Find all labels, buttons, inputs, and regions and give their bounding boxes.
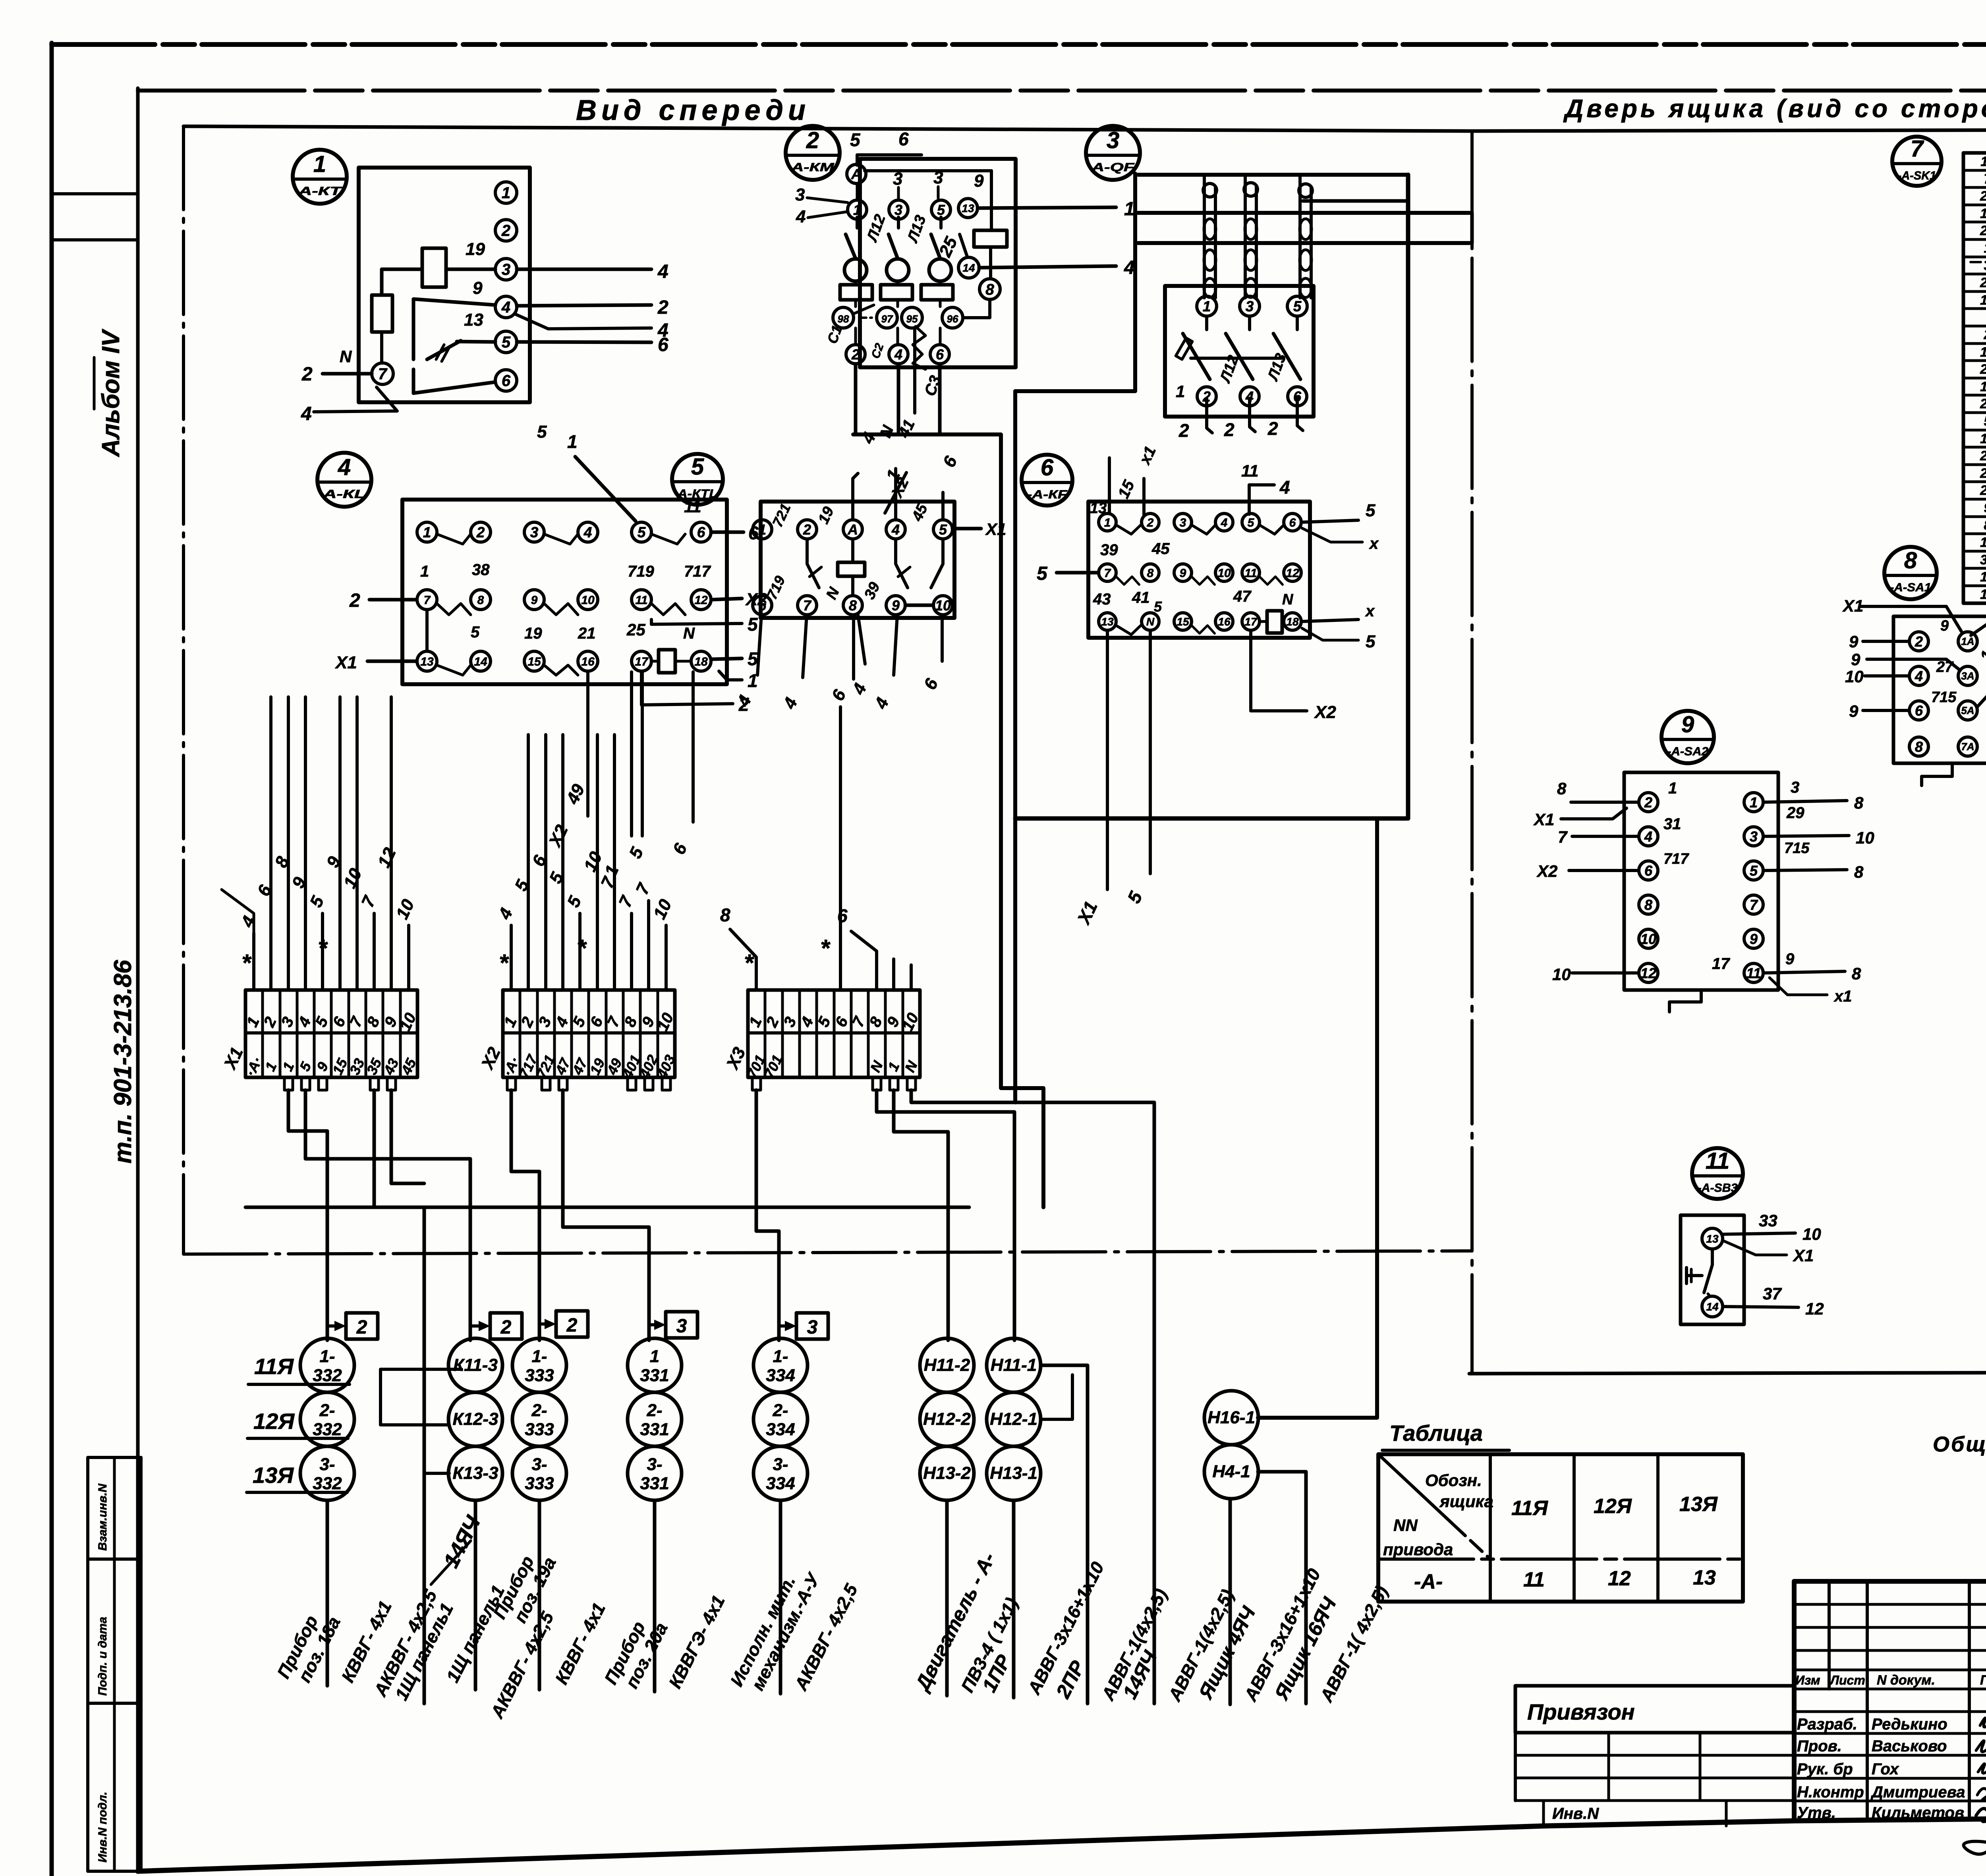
designator circle 6 A-KF xyxy=(1022,455,1072,506)
svg-text:13: 13 xyxy=(962,202,974,214)
svg-text:1: 1 xyxy=(1203,298,1211,315)
svg-text:332: 332 xyxy=(313,1420,342,1439)
A-KM contact 98-97 bridge xyxy=(854,305,874,314)
X3 wire 9 10 xyxy=(892,959,895,990)
X2 wire 1 xyxy=(510,925,513,990)
A-KM pin 96 and resistor to 8 xyxy=(942,307,963,328)
A-KL row3 contacts xyxy=(437,665,471,675)
terminal strip X1 xyxy=(245,990,417,1077)
A-KF pins row1 xyxy=(1099,513,1116,531)
svg-text:Н.контр: Н.контр xyxy=(1797,1783,1864,1801)
tablitsa diagonal xyxy=(1378,1454,1490,1559)
A-KM fuse branch C2 xyxy=(897,217,900,228)
X1 wire 1 bend xyxy=(222,890,254,933)
svg-text:Подп. и дата: Подп. и дата xyxy=(96,1617,109,1696)
cable H13-2 labels xyxy=(945,1500,949,1696)
svg-text:11Я: 11Я xyxy=(254,1354,294,1379)
X1 wire 7 xyxy=(355,697,359,990)
svg-text:4: 4 xyxy=(301,403,312,425)
svg-text:333: 333 xyxy=(525,1420,554,1439)
A-KM fuse branch C3 xyxy=(939,217,943,228)
svg-text:4: 4 xyxy=(891,521,900,538)
svg-text:334: 334 xyxy=(766,1366,795,1385)
wire X2c4 to col331 xyxy=(563,1090,649,1340)
svg-text:2: 2 xyxy=(806,127,819,153)
A-KM pins 1 3 5 13 xyxy=(848,200,867,219)
X1 wire 10 xyxy=(407,925,410,990)
A-SA2 left leads xyxy=(1571,801,1639,804)
boxed ref 3 col331 xyxy=(666,1312,697,1338)
svg-text:Н16-1: Н16-1 xyxy=(1207,1408,1255,1427)
A-KL diagonal lead to pin5 xyxy=(575,457,636,521)
svg-text:11: 11 xyxy=(1523,1568,1545,1591)
A-SA2 pins col1 xyxy=(1639,793,1658,812)
A-KM pin A xyxy=(847,164,866,183)
svg-text:9: 9 xyxy=(1849,702,1858,720)
svg-text:Гох: Гох xyxy=(1872,1760,1899,1778)
A-KF pins row3 xyxy=(1099,613,1116,630)
A-KT wire coil to pin7 xyxy=(380,332,383,363)
svg-text:10: 10 xyxy=(581,594,595,607)
svg-text:2-: 2- xyxy=(531,1401,547,1420)
svg-text:Обозн.: Обозн. xyxy=(1425,1471,1482,1490)
svg-text:8: 8 xyxy=(1147,567,1154,580)
svg-text:2: 2 xyxy=(1267,418,1278,439)
A-KF lead from 6 right xyxy=(1301,520,1358,522)
svg-text:4: 4 xyxy=(894,346,902,363)
svg-text:Н11-1: Н11-1 xyxy=(991,1355,1037,1375)
svg-text:14: 14 xyxy=(1706,1301,1719,1313)
svg-text:29: 29 xyxy=(1980,448,1986,463)
svg-text:-А-КF: -А-КF xyxy=(1027,488,1068,501)
svg-text:X1: X1 xyxy=(1842,596,1863,615)
svg-text:96: 96 xyxy=(947,313,958,325)
relay A-KL box xyxy=(402,500,727,684)
svg-text:1: 1 xyxy=(1750,794,1758,811)
svg-text:N докум.: N докум. xyxy=(1877,1673,1935,1688)
svg-text:13: 13 xyxy=(1101,616,1114,628)
designator circle 9 -A-SA2 xyxy=(1661,711,1714,763)
A-SA2 bottom hook xyxy=(1669,990,1701,1012)
svg-text:1: 1 xyxy=(1176,382,1185,401)
svg-text:17: 17 xyxy=(1980,206,1986,221)
A-KTL bridge 9-10 xyxy=(907,604,933,607)
svg-text:8: 8 xyxy=(1644,897,1652,913)
svg-text:9: 9 xyxy=(1940,618,1949,634)
cable H13-1 labels xyxy=(1012,1500,1016,1698)
svg-text:9: 9 xyxy=(531,594,538,607)
cable col334 labels xyxy=(779,1500,782,1694)
svg-text:21: 21 xyxy=(1980,362,1986,377)
svg-text:2: 2 xyxy=(657,297,668,318)
svg-text:*: * xyxy=(499,950,509,976)
svg-text:1: 1 xyxy=(423,524,431,540)
A-KL lead 5 row2 xyxy=(651,620,742,624)
A-KTL top stubs xyxy=(853,473,858,520)
svg-text:Дверь ящика (вид со сторо: Дверь ящика (вид со стороны монтажа) xyxy=(1563,94,1986,123)
svg-text:Васьково: Васьково xyxy=(1872,1737,1947,1755)
svg-text:4: 4 xyxy=(338,454,351,480)
inner frame top dashed xyxy=(138,89,1986,93)
front view box xyxy=(184,126,1472,131)
A-KF coil xyxy=(1267,611,1282,633)
contactor A-KM box xyxy=(860,159,1016,367)
wire QF circle down xyxy=(1015,174,1135,391)
svg-text:331: 331 xyxy=(640,1474,669,1493)
svg-text:3: 3 xyxy=(893,169,902,189)
cable K13 labels xyxy=(474,1500,477,1690)
designator circle 8 -A-SA1 xyxy=(1884,547,1937,599)
svg-text:6: 6 xyxy=(502,372,511,390)
stamp box podp data xyxy=(88,1559,141,1703)
svg-text:Таблица: Таблица xyxy=(1389,1421,1483,1446)
A-KTL coil xyxy=(838,562,865,576)
A-KM zigzag under 95 xyxy=(913,326,925,369)
terminal strip X3 xyxy=(748,990,920,1077)
svg-text:2-: 2- xyxy=(319,1401,335,1420)
inv n bottom row xyxy=(1542,1801,1545,1826)
svg-text:Пров.: Пров. xyxy=(1797,1737,1842,1755)
svg-text:X1: X1 xyxy=(1793,1246,1814,1265)
svg-text:47: 47 xyxy=(1233,588,1252,605)
A-KT contact to pin6 xyxy=(412,369,415,393)
svg-text:17: 17 xyxy=(1712,955,1730,973)
svg-text:41: 41 xyxy=(1132,589,1150,606)
svg-text:13Я: 13Я xyxy=(1679,1493,1718,1516)
A-KL lead 2 to pin7 xyxy=(369,598,417,602)
terminal strip SK1 xyxy=(1963,153,1986,603)
svg-text:X1: X1 xyxy=(985,520,1006,538)
svg-text:4: 4 xyxy=(1124,257,1135,278)
svg-text:8: 8 xyxy=(1984,518,1986,533)
svg-text:5: 5 xyxy=(1154,598,1162,615)
svg-text:2: 2 xyxy=(1984,327,1986,342)
svg-text:N: N xyxy=(683,625,695,642)
svg-text:17: 17 xyxy=(1244,616,1258,628)
svg-text:12: 12 xyxy=(1286,567,1299,580)
QF box xyxy=(1165,286,1314,417)
svg-text:*: * xyxy=(577,935,587,961)
boxed ref 2 col333 xyxy=(556,1311,588,1337)
svg-text:30: 30 xyxy=(1980,552,1986,567)
svg-text:38: 38 xyxy=(472,561,490,579)
svg-text:5: 5 xyxy=(1248,516,1255,529)
svg-text:11: 11 xyxy=(1244,567,1257,580)
svg-text:717: 717 xyxy=(1663,851,1689,867)
svg-text:15: 15 xyxy=(527,655,541,668)
signoff grid columns xyxy=(1828,1581,1831,1689)
column K11-3 circles xyxy=(448,1338,502,1392)
svg-text:6: 6 xyxy=(758,597,767,614)
designator circle 7 -A-SK1 xyxy=(1892,137,1942,186)
svg-text:12: 12 xyxy=(1640,965,1656,981)
svg-text:9: 9 xyxy=(1681,712,1694,737)
svg-text:N: N xyxy=(1146,616,1155,628)
svg-text:4: 4 xyxy=(583,524,592,540)
svg-text:Дмитриева: Дмитриева xyxy=(1870,1783,1965,1801)
svg-text:13: 13 xyxy=(1090,500,1107,517)
svg-text:2: 2 xyxy=(1915,633,1923,650)
svg-text:3-: 3- xyxy=(531,1455,547,1474)
X2 wire 5 xyxy=(578,913,582,990)
A-KTL pins row1 xyxy=(753,520,772,539)
A-SA1 pins xyxy=(1909,632,1928,651)
svg-text:13: 13 xyxy=(1980,379,1986,394)
designator circle 2 A-KM xyxy=(786,126,840,180)
svg-text:5: 5 xyxy=(1984,414,1986,429)
svg-text:Рук. бр: Рук. бр xyxy=(1797,1760,1853,1778)
svg-text:2: 2 xyxy=(301,364,313,385)
svg-text:22: 22 xyxy=(1980,396,1986,411)
svg-text:-А-: -А- xyxy=(1414,1570,1443,1593)
svg-text:1-: 1- xyxy=(531,1347,547,1366)
A-KT resistor R1 xyxy=(422,248,446,287)
svg-text:К12-3: К12-3 xyxy=(452,1409,498,1429)
svg-text:7А: 7А xyxy=(1961,741,1974,753)
svg-text:7: 7 xyxy=(424,594,431,607)
svg-text:97: 97 xyxy=(881,313,893,325)
A-KTL pins row2 xyxy=(753,596,772,615)
svg-text:8: 8 xyxy=(720,905,730,925)
svg-text:6: 6 xyxy=(898,129,909,149)
svg-text:3: 3 xyxy=(1984,258,1986,273)
svg-text:6: 6 xyxy=(658,334,668,355)
svg-text:5: 5 xyxy=(1750,863,1758,879)
svg-text:3А: 3А xyxy=(1961,670,1974,682)
svg-text:*: * xyxy=(241,950,252,976)
svg-text:331: 331 xyxy=(640,1420,669,1439)
svg-text:3: 3 xyxy=(1107,127,1119,153)
A-KT pins 1-6 xyxy=(495,182,517,203)
svg-text:1: 1 xyxy=(650,1347,659,1366)
svg-text:5: 5 xyxy=(1037,563,1048,584)
svg-text:9: 9 xyxy=(1984,500,1986,515)
svg-text:А-КМ: А-КМ xyxy=(791,161,835,174)
svg-text:19: 19 xyxy=(524,625,542,642)
svg-text:A: A xyxy=(851,166,862,182)
terminal strip X2 xyxy=(503,990,675,1077)
left margin tick 2 xyxy=(52,238,138,241)
A-KL coil xyxy=(659,650,675,673)
A-KM lead from 14 xyxy=(979,266,1116,268)
svg-text:13Я: 13Я xyxy=(253,1463,294,1488)
svg-text:5: 5 xyxy=(850,129,861,150)
svg-text:3: 3 xyxy=(807,1317,818,1338)
svg-text:А-КL: А-КL xyxy=(323,488,366,501)
svg-text:8: 8 xyxy=(1557,779,1567,798)
svg-text:2: 2 xyxy=(500,1317,512,1338)
svg-text:9: 9 xyxy=(974,171,984,191)
X2 wire 9 xyxy=(647,901,650,990)
svg-text:x: x xyxy=(1365,602,1375,620)
wire X1c8 to 1Shch cable xyxy=(373,1090,376,1207)
svg-text:1: 1 xyxy=(502,184,510,202)
QF switch blades xyxy=(1205,316,1208,330)
A-KT pin 7 xyxy=(372,363,393,384)
svg-text:9: 9 xyxy=(473,278,483,298)
svg-text:10: 10 xyxy=(935,597,951,614)
svg-text:10: 10 xyxy=(1802,1225,1821,1243)
svg-text:1-: 1- xyxy=(319,1347,335,1366)
svg-text:8: 8 xyxy=(849,597,857,614)
H4-1 circle xyxy=(1204,1445,1258,1499)
svg-text:333: 333 xyxy=(525,1366,554,1385)
svg-text:9: 9 xyxy=(1851,650,1860,669)
svg-text:20: 20 xyxy=(1980,483,1986,498)
svg-text:X2: X2 xyxy=(1536,862,1557,880)
A-SA2 right leads xyxy=(1763,801,1847,802)
svg-text:N: N xyxy=(1282,591,1294,608)
bus vertical mid xyxy=(1013,391,1017,1102)
svg-text:Подп.: Подп. xyxy=(1980,1673,1986,1688)
svg-text:x: x xyxy=(1369,535,1379,552)
QF bottom stubs 2 2 2 xyxy=(1207,398,1212,433)
svg-text:1: 1 xyxy=(1104,516,1111,529)
svg-text:-А-SВ3: -А-SВ3 xyxy=(1698,1181,1738,1195)
wire H4-1 to cable xyxy=(1258,1472,1306,1704)
svg-text:18: 18 xyxy=(1286,616,1299,628)
switch A-SA1 box xyxy=(1893,616,1986,763)
A-KF top leads xyxy=(1108,458,1111,513)
svg-text:Лист: Лист xyxy=(1830,1673,1865,1687)
stamp box vzam inv xyxy=(88,1457,141,1559)
A-KL pins row1 xyxy=(417,522,437,542)
boxed ref 2 col332 xyxy=(346,1313,378,1339)
svg-text:6: 6 xyxy=(1289,516,1296,529)
svg-text:Взам.инв.N: Взам.инв.N xyxy=(96,1483,109,1551)
X2 wire 6 xyxy=(596,735,599,990)
cable col331 labels xyxy=(653,1500,657,1692)
svg-text:3: 3 xyxy=(1750,828,1758,845)
svg-text:4: 4 xyxy=(657,261,668,282)
QF supply chain L1 xyxy=(1203,175,1206,298)
X1 wire 9 xyxy=(390,697,393,990)
signoff rows xyxy=(1794,1710,1986,1713)
svg-text:5: 5 xyxy=(1293,298,1302,315)
switch A-SA2 box xyxy=(1624,772,1778,990)
svg-text:1: 1 xyxy=(420,563,429,580)
svg-text:6: 6 xyxy=(837,905,848,926)
svg-text:12: 12 xyxy=(1805,1299,1824,1318)
svg-text:10: 10 xyxy=(1856,828,1874,847)
svg-text:3-: 3- xyxy=(319,1455,335,1474)
svg-text:31: 31 xyxy=(1663,815,1681,833)
A-KL pins row3 xyxy=(417,651,437,671)
svg-text:2: 2 xyxy=(501,222,510,239)
svg-text:Н13-2: Н13-2 xyxy=(923,1463,971,1483)
svg-text:8: 8 xyxy=(1904,548,1917,573)
svg-text:2: 2 xyxy=(1224,419,1234,440)
X1 wire 8 xyxy=(373,913,376,990)
A-KM lead from 13 xyxy=(978,207,1116,208)
svg-text:Н11-2: Н11-2 xyxy=(924,1355,970,1375)
svg-text:8: 8 xyxy=(1854,793,1864,812)
svg-text:5: 5 xyxy=(638,524,646,540)
button A-SB3 box xyxy=(1681,1215,1744,1324)
svg-text:Привязон: Привязон xyxy=(1527,1699,1635,1724)
svg-text:4: 4 xyxy=(796,207,806,226)
svg-text:3: 3 xyxy=(502,261,510,278)
svg-text:2: 2 xyxy=(803,521,811,538)
svg-text:7: 7 xyxy=(1750,897,1758,913)
svg-text:13: 13 xyxy=(1706,1233,1719,1245)
A-KF bottom stubs xyxy=(1106,630,1109,890)
X2 wire 10 xyxy=(665,925,668,990)
svg-text:332: 332 xyxy=(313,1366,342,1385)
svg-text:4: 4 xyxy=(1915,668,1923,684)
A-KL lead 1 xyxy=(719,671,742,680)
wire X2c1 to col333 xyxy=(511,1090,539,1340)
A-KL lead 2 bottom xyxy=(641,672,733,705)
long bus under strips xyxy=(245,1206,969,1209)
svg-text:3: 3 xyxy=(676,1316,687,1337)
svg-text:6: 6 xyxy=(1915,703,1923,719)
svg-text:14: 14 xyxy=(962,262,975,274)
X3 bottom pegs xyxy=(752,1077,761,1090)
A-KL lead from pin6 xyxy=(711,531,744,534)
svg-text:3: 3 xyxy=(894,202,902,218)
H16-1 circle xyxy=(1204,1391,1258,1445)
svg-text:1: 1 xyxy=(1668,780,1677,797)
svg-text:16: 16 xyxy=(581,655,595,668)
wire X3c8 to H11-1 xyxy=(877,1090,1014,1340)
svg-text:5: 5 xyxy=(937,202,945,218)
signoff grid rows upper xyxy=(1794,1603,1986,1606)
svg-text:18: 18 xyxy=(1980,569,1986,585)
privyazon grid xyxy=(1515,1754,1794,1757)
designator circle 5 A-KTL xyxy=(672,454,723,505)
svg-text:-A-SK1: -A-SK1 xyxy=(1898,169,1936,182)
inner frame left xyxy=(136,88,140,1871)
svg-text:-А-SА1: -А-SА1 xyxy=(1890,581,1931,594)
column H11-2 circles xyxy=(920,1338,974,1392)
svg-text:8: 8 xyxy=(1852,964,1861,983)
svg-text:12Я: 12Я xyxy=(253,1409,295,1434)
svg-text:7: 7 xyxy=(378,365,388,383)
X2 wire 3 xyxy=(544,735,547,990)
svg-text:*: * xyxy=(820,935,831,961)
svg-text:9: 9 xyxy=(1849,632,1858,651)
svg-text:9: 9 xyxy=(1785,950,1795,968)
svg-text:10: 10 xyxy=(1845,667,1864,686)
svg-text:8: 8 xyxy=(985,281,994,298)
svg-text:2: 2 xyxy=(476,524,485,540)
svg-text:43: 43 xyxy=(1093,591,1111,608)
svg-text:9: 9 xyxy=(1750,931,1758,947)
X1 wire 4 xyxy=(304,697,307,990)
svg-text:12: 12 xyxy=(694,594,708,607)
A-KF pins row2 xyxy=(1099,564,1116,581)
A-KT leads from pin4 xyxy=(517,305,651,306)
column 331 circles xyxy=(628,1338,682,1392)
X1 wire 6 xyxy=(338,697,342,990)
svg-text:Н4-1: Н4-1 xyxy=(1212,1462,1250,1481)
svg-text:1А: 1А xyxy=(1961,635,1974,647)
svg-text:К11-3: К11-3 xyxy=(453,1355,498,1375)
X2 bottom pegs xyxy=(507,1077,516,1090)
A-SB3 leads xyxy=(1723,1233,1795,1234)
tablitsa box xyxy=(1378,1454,1743,1602)
A-KL lead from 18 - 5 xyxy=(711,658,742,659)
svg-text:10: 10 xyxy=(1552,965,1571,984)
svg-text:Кильметов: Кильметов xyxy=(1872,1804,1964,1822)
A-KT coil xyxy=(372,295,392,332)
column 333 circles xyxy=(512,1338,566,1392)
A-KL pins row2 xyxy=(417,590,437,610)
svg-text:334: 334 xyxy=(766,1474,795,1493)
svg-text:8: 8 xyxy=(477,594,484,607)
svg-text:7: 7 xyxy=(1558,828,1568,846)
